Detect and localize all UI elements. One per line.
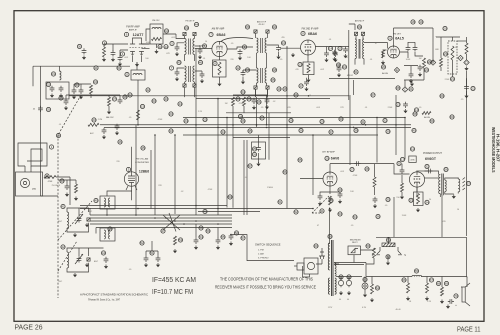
wire pilot: [365, 277, 372, 294]
svg-text:29: 29: [320, 120, 324, 124]
svg-text:52: 52: [140, 241, 144, 245]
ground C20: [82, 56, 86, 60]
wire V1 cathode down: [133, 56, 142, 62]
ref T5 lower: [347, 72, 389, 77]
svg-text:220K: 220K: [445, 79, 450, 81]
svg-text:53: 53: [179, 238, 183, 242]
wire TF2 leads: [185, 82, 195, 97]
svg-text:B: B: [432, 61, 434, 65]
bus line 3b: [233, 137, 290, 139]
vertical header H-196 H-207: [495, 134, 500, 162]
svg-text:64: 64: [241, 90, 245, 94]
wire V1 grid left: [120, 50, 128, 56]
svg-text:28: 28: [365, 167, 369, 171]
FM IF transformer TF2 windings: [185, 66, 195, 82]
mid cluster resistor Rb: [243, 97, 252, 106]
svg-text:44: 44: [195, 23, 199, 27]
svg-text:RECEIVER MAKES IT POSSIBLE TO: RECEIVER MAKES IT POSSIBLE TO BRING YOU …: [215, 285, 316, 290]
tube V5 12AT7 converter: [124, 172, 138, 186]
wire C10: [307, 64, 340, 80]
svg-text:24: 24: [239, 115, 243, 119]
resistor left cluster: [90, 80, 98, 94]
svg-text:455 KC: 455 KC: [347, 75, 354, 77]
electrolytic C44: [446, 299, 457, 309]
diamond test D: [464, 60, 469, 65]
svg-text:AVC: AVC: [90, 132, 95, 135]
resistor R46: [440, 287, 444, 304]
mid left res R20: [107, 97, 117, 114]
wire left top bus: [33, 66, 130, 86]
label V6: [322, 150, 339, 160]
bundle line extra: [198, 210, 260, 212]
ground C2: [111, 58, 115, 62]
wire V1 to TF1: [142, 34, 185, 44]
svg-text:FM DET: FM DET: [393, 33, 402, 35]
tube V1 12AT7: [130, 41, 146, 56]
svg-text:32: 32: [383, 119, 387, 123]
phono input box: [16, 172, 43, 196]
capacitor C30: [318, 194, 323, 206]
vertical rail c: [226, 118, 228, 208]
svg-text:57: 57: [241, 236, 245, 240]
capacitor bus end: [102, 128, 107, 139]
svg-text:59: 59: [206, 229, 210, 233]
FM osc box T1: [150, 24, 163, 44]
svg-text:35: 35: [386, 198, 390, 202]
svg-text:45: 45: [246, 25, 250, 29]
svg-text:©Howard W. Sams & Co., Inc. 19: ©Howard W. Sams & Co., Inc. 1947: [88, 298, 120, 302]
ref speaker: [466, 181, 470, 185]
svg-text:23: 23: [169, 112, 173, 116]
svg-text:45: 45: [141, 146, 145, 150]
wire V4 in: [364, 28, 433, 62]
ref L5: [94, 198, 98, 202]
mid cluster cap Ca: [252, 98, 262, 104]
left box circuit: [46, 82, 69, 99]
mid left cap C23: [59, 96, 69, 110]
ref pilot: [363, 277, 380, 290]
svg-text:16: 16: [343, 65, 347, 69]
wire R33 top: [416, 187, 418, 192]
switch bus 4: [90, 223, 232, 225]
heater bus 1: [69, 95, 349, 97]
svg-text:23: 23: [444, 52, 448, 56]
svg-text:49: 49: [203, 210, 207, 214]
filter choke L10: [412, 275, 422, 276]
dashed ratio box: [448, 41, 457, 74]
vertical rail i: [312, 135, 314, 195]
ref R44: [402, 278, 434, 282]
svg-text:19: 19: [419, 20, 423, 24]
svg-text:36: 36: [299, 129, 303, 133]
svg-text:H-196, H-207: H-196, H-207: [495, 134, 500, 162]
resistor R8: [382, 50, 385, 58]
svg-text:1M: 1M: [455, 47, 458, 49]
FM IF transformer TF1 trimmers: [183, 32, 196, 35]
cooperation note line 2: [215, 285, 316, 290]
svg-text:72: 72: [386, 255, 390, 259]
ground C6: [276, 55, 280, 59]
ref C44: [454, 294, 458, 298]
ground C5: [238, 56, 242, 60]
gang trimmer 2: [87, 258, 90, 261]
ref R10: [427, 60, 431, 64]
diamond test E: [394, 67, 399, 72]
svg-text:THE COOPERATION OF THE MANUFAC: THE COOPERATION OF THE MANUFACTURER OF T…: [220, 277, 313, 282]
vertical rail b: [217, 98, 219, 215]
wire TF mid: [162, 43, 164, 45]
svg-text:69: 69: [440, 94, 444, 98]
diamond test B: [430, 60, 435, 65]
svg-text:OSC: OSC: [58, 281, 63, 283]
wire gang1: [67, 208, 89, 232]
ref C2: [120, 52, 124, 56]
svg-text:2.2K: 2.2K: [427, 301, 432, 303]
wire V2 in: [195, 48, 212, 50]
svg-text:38: 38: [354, 129, 358, 133]
svg-text:220K: 220K: [388, 107, 393, 109]
capacitor CF3: [169, 66, 179, 81]
svg-text:69: 69: [445, 282, 449, 286]
osc box below V1: [131, 70, 145, 80]
svg-text:17: 17: [299, 84, 303, 88]
svg-text:OSC: OSC: [88, 211, 93, 213]
ground V3 in: [291, 53, 295, 57]
svg-text:PAGE 11: PAGE 11: [457, 325, 481, 334]
ref C10: [277, 84, 303, 91]
svg-text:55: 55: [298, 158, 302, 162]
oscillator coil L5: [100, 196, 115, 209]
wire mid cluster: [233, 95, 267, 113]
wire V5 top: [132, 147, 152, 209]
wire T10: [425, 171, 459, 197]
svg-text:21: 21: [409, 87, 413, 91]
resistor R45: [425, 283, 429, 301]
ref plug: [314, 244, 318, 248]
capacitor CF4: [200, 72, 205, 83]
left coil L2: [51, 71, 61, 80]
svg-text:PAGE 26: PAGE 26: [15, 323, 43, 332]
ground C10: [304, 73, 341, 91]
svg-text:26: 26: [241, 119, 245, 123]
ground tone cap: [256, 162, 260, 166]
svg-text:1M: 1M: [419, 58, 422, 60]
svg-text:33: 33: [169, 129, 173, 133]
svg-text:68: 68: [396, 86, 400, 90]
ref phono: [45, 174, 49, 178]
svg-text:2.2K: 2.2K: [198, 111, 203, 113]
vertical rail e: [349, 95, 351, 165]
wire R44: [408, 277, 427, 284]
ground left box: [50, 94, 63, 98]
svg-text:1 MEG: 1 MEG: [267, 187, 274, 189]
capacitor C33: [416, 164, 432, 173]
ref C5: [242, 45, 246, 49]
svg-text:2. AM: 2. AM: [258, 253, 264, 256]
svg-text:55: 55: [221, 235, 225, 239]
wire V6 cath: [329, 186, 331, 194]
svg-text:20: 20: [382, 65, 386, 69]
resistor R15: [44, 176, 56, 184]
vertical rail g: [395, 95, 397, 155]
ref T5: [342, 25, 385, 74]
ref choke: [414, 269, 418, 273]
svg-text:56: 56: [283, 170, 287, 174]
capacitor C6: [276, 45, 281, 51]
svg-text:43: 43: [60, 179, 64, 183]
wire gang2: [67, 248, 104, 272]
wire L5: [107, 191, 132, 215]
svg-text:61: 61: [117, 66, 121, 70]
ref T1b: [158, 45, 168, 49]
svg-text:41: 41: [61, 205, 65, 209]
svg-text:21: 21: [451, 77, 455, 81]
switch sequence 3: [258, 258, 269, 260]
svg-text:35: 35: [248, 129, 252, 133]
ref V7 grid: [397, 161, 401, 165]
wire V1 plate up: [133, 38, 150, 44]
svg-text:34: 34: [221, 130, 225, 134]
detector caps: [406, 45, 418, 51]
wire V4 out: [383, 50, 409, 57]
svg-text:53: 53: [338, 212, 342, 216]
wire T3 trimmer drops: [256, 89, 268, 96]
wire V1 to V2 row: [142, 48, 150, 50]
ref T10: [444, 167, 456, 198]
svg-text:1M: 1M: [225, 103, 228, 105]
bus stub: [226, 112, 291, 114]
FM IF transformer TF2 trimmers: [183, 84, 196, 87]
selenium rectifier label: [350, 239, 361, 244]
svg-text:15: 15: [141, 105, 145, 109]
FM IF transformer TF1 windings: [185, 39, 195, 55]
ground bottom row: [144, 263, 160, 267]
bus right column: [441, 195, 443, 237]
wire V3 cath: [308, 47, 336, 79]
wire V5 bottom: [126, 186, 137, 200]
ref V7 cath: [409, 198, 429, 204]
wire rect out: [354, 248, 374, 263]
ground V2: [217, 82, 221, 86]
wire CF4: [195, 70, 203, 73]
switch bus 3: [90, 220, 232, 222]
vertical rail right: [466, 71, 468, 236]
svg-text:23: 23: [92, 118, 96, 122]
svg-text:30: 30: [339, 117, 343, 121]
gang dashed diag: [58, 95, 92, 240]
junction switch: [106, 205, 330, 225]
wire V7 plate: [425, 177, 439, 179]
junction heater: [217, 95, 309, 99]
ground C16: [464, 94, 468, 98]
vertical rail f: [376, 118, 378, 163]
bus switch row: [376, 237, 467, 276]
wire tone cap: [258, 135, 260, 163]
svg-text:11: 11: [411, 147, 414, 151]
page number left: [15, 323, 43, 332]
resistor det extra: [440, 37, 448, 71]
svg-text:470K: 470K: [239, 103, 244, 105]
wire gang feed: [41, 149, 59, 197]
bottom mid cap: [194, 235, 203, 250]
tube V1 12AT7 designator: [124, 32, 143, 37]
wire drop T2: [257, 95, 267, 127]
junction drops: [256, 124, 288, 128]
bottom mid cap2: [216, 235, 225, 250]
wire V1 box link: [137, 62, 138, 86]
cap near bus: [396, 102, 408, 113]
ground T1: [154, 50, 158, 54]
svg-text:67: 67: [430, 278, 434, 282]
ground C1: [118, 62, 122, 66]
ground R1: [102, 58, 106, 62]
ref R1: [102, 41, 106, 45]
svg-text:65: 65: [271, 78, 275, 82]
svg-text:AM OSC: AM OSC: [106, 116, 114, 119]
bottom right caps: [199, 226, 245, 246]
resistor R42: [370, 284, 374, 302]
svg-text:12AT7: 12AT7: [133, 33, 144, 37]
wire osc down: [137, 86, 139, 125]
svg-text:60: 60: [450, 115, 454, 119]
svg-text:28: 28: [289, 119, 293, 123]
svg-text:13: 13: [396, 103, 400, 107]
svg-text:11: 11: [125, 73, 128, 77]
svg-text:26: 26: [257, 100, 261, 104]
wire V2 plate: [221, 38, 253, 42]
wire C14: [404, 66, 418, 72]
wire det bus: [404, 68, 424, 80]
gang trimmer 1: [87, 218, 90, 221]
ground pilot: [363, 293, 367, 297]
ground left cluster: [72, 95, 83, 99]
ref T1a: [164, 29, 168, 33]
ground C7: [241, 80, 245, 84]
v7 area extras: [373, 197, 391, 219]
tube V6 6AV6: [323, 172, 337, 186]
wire T5 leads: [349, 24, 364, 65]
power transformer secondary hv: [335, 263, 336, 276]
bus upper pair: [80, 206, 313, 209]
svg-text:A: A: [459, 56, 461, 60]
resistor R33: [414, 192, 424, 212]
wire T1 down: [146, 29, 157, 48]
svg-text:13: 13: [298, 63, 302, 67]
electrolytic C41: [346, 277, 351, 295]
svg-text:1. FM: 1. FM: [258, 250, 264, 252]
svg-text:50: 50: [228, 195, 232, 199]
svg-text:43: 43: [164, 97, 168, 101]
wire det col: [457, 40, 467, 42]
switch bus 2: [90, 217, 232, 219]
bus filter top: [334, 263, 366, 277]
svg-text:58: 58: [328, 235, 332, 239]
ref rect: [366, 244, 370, 248]
svg-text:27: 27: [350, 168, 354, 172]
svg-text:47: 47: [161, 229, 165, 233]
svg-text:36: 36: [59, 96, 63, 100]
svg-text:48: 48: [108, 227, 112, 231]
svg-text:100K: 100K: [406, 59, 411, 61]
bus line 3: [183, 134, 378, 136]
V7 left column: [400, 164, 405, 200]
ref TF1: [184, 22, 198, 30]
volume switch: [382, 243, 395, 247]
svg-text:67: 67: [371, 93, 375, 97]
svg-text:63: 63: [152, 99, 156, 103]
svg-text:42: 42: [165, 29, 169, 33]
bottom cap row: [144, 251, 161, 262]
svg-text:42: 42: [61, 245, 65, 249]
wire ratio: [436, 37, 460, 77]
IF transformer T2 windings: [257, 38, 267, 53]
wire CF2: [195, 46, 201, 48]
left cluster caps: [72, 83, 84, 94]
heater wire right: [329, 78, 395, 80]
svg-text:ALIGN: ALIGN: [382, 72, 388, 75]
svg-text:38: 38: [123, 95, 127, 99]
svg-text:6BA6: 6BA6: [217, 33, 226, 37]
power transformer T11 core: [332, 240, 334, 296]
resistor R44: [406, 283, 410, 301]
IF note FM: [152, 289, 193, 296]
svg-text:24: 24: [184, 119, 188, 123]
svg-text:45: 45: [177, 61, 181, 65]
svg-text:6V6GT: 6V6GT: [425, 157, 437, 161]
label V3: [301, 27, 319, 36]
capacitor C9: [324, 51, 338, 57]
ground diamond C: [409, 82, 414, 91]
wire C7: [243, 70, 257, 81]
svg-text:6AL5: 6AL5: [395, 37, 404, 41]
wire V7 in: [394, 164, 410, 174]
capacitor C16: [464, 84, 469, 90]
ref C16: [471, 86, 475, 90]
wire R46: [441, 277, 443, 288]
svg-text:33: 33: [75, 83, 79, 87]
svg-text:51: 51: [354, 70, 358, 74]
svg-text:24: 24: [236, 97, 240, 101]
svg-text:36: 36: [376, 215, 380, 219]
svg-text:22: 22: [425, 68, 429, 72]
resistor R30: [328, 192, 343, 212]
svg-text:12: 12: [401, 158, 405, 162]
wire V3 in: [280, 46, 301, 48]
capacitor CF1: [170, 41, 180, 56]
bus line B+ top: [183, 117, 405, 119]
mid cluster cap Cb: [265, 98, 270, 104]
svg-text:30: 30: [338, 188, 342, 192]
svg-text:IF=455 KC AM: IF=455 KC AM: [152, 277, 196, 284]
svg-text:58: 58: [413, 112, 417, 116]
wire phono line: [230, 235, 294, 261]
switch crossing: [163, 213, 180, 232]
svg-text:12: 12: [236, 66, 240, 70]
speaker: [458, 178, 465, 194]
resistor R10: [423, 58, 426, 68]
ground C14: [409, 79, 413, 83]
svg-text:FM OSC: FM OSC: [152, 20, 160, 22]
ref R46: [436, 281, 448, 285]
wire V2 cath: [219, 57, 221, 82]
coil L8: [100, 228, 115, 241]
IF transformer T3 trimmers: [254, 86, 269, 89]
ref det caps: [411, 20, 447, 31]
transformer caption T2: [257, 21, 267, 27]
svg-text:470K: 470K: [158, 119, 163, 121]
transformer caption T5: [355, 20, 365, 23]
label V1 FM RF AMP: [126, 26, 140, 32]
